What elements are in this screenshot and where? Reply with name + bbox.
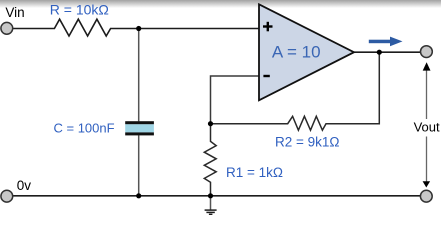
svg-text:R = 10kΩ: R = 10kΩ xyxy=(50,1,109,17)
svg-text:R2 = 9k1Ω: R2 = 9k1Ω xyxy=(275,134,340,149)
svg-text:R1 = 1kΩ: R1 = 1kΩ xyxy=(226,165,283,180)
svg-text:A = 10: A = 10 xyxy=(272,42,321,61)
svg-text:Vin: Vin xyxy=(5,5,24,20)
svg-text:C = 100nF: C = 100nF xyxy=(54,120,115,135)
svg-text:Vout: Vout xyxy=(414,120,440,135)
svg-text:0v: 0v xyxy=(17,178,32,193)
